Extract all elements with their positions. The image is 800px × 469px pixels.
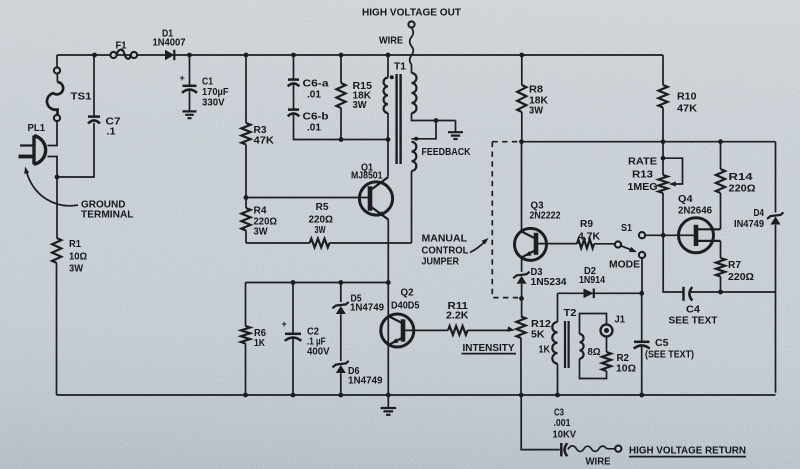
wire rail2 <box>522 141 776 143</box>
label 8 ohm <box>588 347 601 358</box>
svg-text:TS1: TS1 <box>71 92 92 103</box>
svg-text:R13: R13 <box>632 170 653 181</box>
svg-text:220Ω: 220Ω <box>309 215 334 226</box>
svg-text:IN4749: IN4749 <box>734 219 764 230</box>
svg-text:1N914: 1N914 <box>579 275 605 286</box>
switch S1 lower throw <box>639 252 645 258</box>
capacitor C6-b <box>288 110 388 140</box>
svg-text:2N2646: 2N2646 <box>678 206 712 217</box>
wire J1 to R2 <box>606 337 608 352</box>
node bottom rail T2 <box>555 393 560 398</box>
svg-text:2N2222: 2N2222 <box>530 211 561 222</box>
svg-text:R14: R14 <box>729 172 754 183</box>
label R3 <box>254 125 275 147</box>
transformer T2 secondary <box>580 314 607 379</box>
svg-text:.1: .1 <box>107 127 116 138</box>
svg-text:4.7K: 4.7K <box>578 232 601 243</box>
svg-text:3W: 3W <box>529 106 544 117</box>
zener diode D4 <box>767 212 783 224</box>
node R3 top junction <box>244 53 249 58</box>
label FEEDBACK <box>422 147 472 158</box>
svg-text:5K: 5K <box>531 330 545 341</box>
switch S1 upper throw <box>639 232 645 238</box>
svg-text:.01: .01 <box>307 90 321 101</box>
wire D2 rail <box>558 292 642 294</box>
label R15 <box>353 81 373 111</box>
label R5 <box>309 202 334 236</box>
svg-text:220Ω: 220Ω <box>729 184 756 195</box>
wire D3 to R12 <box>521 284 523 317</box>
svg-text:C6-b: C6-b <box>303 112 329 123</box>
label C6-a <box>303 79 330 101</box>
capacitor C5 <box>634 293 650 395</box>
fuse F1 <box>110 50 137 59</box>
node bottom rail C3 branch <box>519 393 524 398</box>
label D5 <box>350 294 384 314</box>
svg-text:HIGH VOLTAGE RETURN: HIGH VOLTAGE RETURN <box>629 446 746 457</box>
node R15 bottom junction <box>339 137 344 142</box>
svg-text:C4: C4 <box>686 305 700 316</box>
wire C7 bottom <box>57 123 94 177</box>
manual-control-jumper dashed line <box>492 142 519 298</box>
switch TS1 top terminal <box>54 67 60 73</box>
label T2 <box>564 308 577 319</box>
svg-text:3W: 3W <box>353 100 368 111</box>
svg-text:170µF: 170µF <box>202 87 229 98</box>
label R4 <box>254 206 278 238</box>
ground at T1 <box>448 132 463 139</box>
node jumper junction <box>519 296 524 301</box>
svg-text:MODE: MODE <box>609 260 640 271</box>
node Q1/Q2 junction <box>386 280 391 285</box>
svg-text:R2: R2 <box>617 353 630 364</box>
transformer T1 primary winding <box>384 55 388 177</box>
svg-text:2.2K: 2.2K <box>446 311 469 322</box>
wire PL1 to ground node <box>48 157 58 178</box>
node bottom rail C2 <box>291 393 296 398</box>
wire Q1 emitter <box>387 220 389 283</box>
transformer T2 core <box>565 321 569 368</box>
svg-text:10Ω: 10Ω <box>616 364 636 375</box>
svg-text:SEE TEXT: SEE TEXT <box>669 316 718 327</box>
node R7 bottom junction <box>718 290 723 295</box>
ground at bottom rail <box>381 395 397 415</box>
svg-text:CONTROL: CONTROL <box>422 246 469 257</box>
svg-text:1N4007: 1N4007 <box>153 38 186 49</box>
label T1 <box>394 62 406 73</box>
jack J1 <box>601 325 613 337</box>
capacitor C2 <box>282 283 302 396</box>
node C2 top junction <box>291 280 296 285</box>
svg-text:(SEE TEXT): (SEE TEXT) <box>645 350 694 361</box>
svg-text:R9: R9 <box>580 219 593 230</box>
label WIRE top <box>379 36 403 47</box>
transformer T1 secondary winding <box>412 73 456 121</box>
label R1 <box>69 239 87 275</box>
svg-text:10KV: 10KV <box>553 430 577 441</box>
thermal switch TS1 <box>47 74 63 115</box>
node C1 top junction <box>187 53 192 58</box>
label C7 <box>106 117 121 138</box>
node R13 loop junction <box>661 156 666 161</box>
switch S1 arm <box>621 246 637 252</box>
svg-text:1K: 1K <box>254 338 266 349</box>
zener diode D3 <box>513 272 529 284</box>
svg-text:3W: 3W <box>315 225 326 236</box>
wire Q3 collector <box>521 142 523 232</box>
label HIGH VOLTAGE OUT <box>362 7 462 19</box>
T1 primary phase dot <box>390 75 394 79</box>
label C6-b <box>303 112 329 134</box>
svg-text:Q4: Q4 <box>678 194 693 205</box>
label Q3 <box>530 201 561 222</box>
wire Q2 base to R11 <box>403 329 448 331</box>
node top-left corner <box>56 55 58 67</box>
label R2 <box>616 353 636 375</box>
label D2 <box>579 266 605 286</box>
svg-text:C1: C1 <box>202 77 213 88</box>
label HIGH VOLTAGE RETURN <box>629 446 746 457</box>
svg-text:R1: R1 <box>69 239 81 250</box>
svg-text:J1: J1 <box>615 315 626 326</box>
T1 feedback phase dot <box>414 137 418 141</box>
wire S1 lower throw down <box>641 258 643 293</box>
label MANUAL CONTROL JUMPER <box>422 234 469 268</box>
svg-text:Q2: Q2 <box>401 288 414 299</box>
resistor R14 <box>716 142 725 230</box>
wire C4 left <box>663 235 682 292</box>
svg-text:+: + <box>282 319 287 329</box>
label R10 <box>677 92 698 115</box>
node R8 top junction <box>519 53 524 58</box>
capacitor C4 <box>684 287 776 301</box>
svg-text:.001: .001 <box>554 418 571 429</box>
node bottom rail D6 <box>338 393 343 398</box>
label WIRE bottom <box>586 457 611 468</box>
label R11 <box>446 301 469 322</box>
transistor Q3 <box>515 228 547 260</box>
node T1 primary / C6 rail junction <box>386 137 391 142</box>
svg-text:RATE: RATE <box>628 157 657 168</box>
svg-text:T1: T1 <box>394 62 406 73</box>
node R8 bottom junction <box>519 139 524 144</box>
svg-text:47K: 47K <box>254 136 275 147</box>
svg-text:R4: R4 <box>254 206 267 217</box>
high-voltage-return terminal <box>615 446 621 452</box>
resistor R4 <box>241 198 250 244</box>
svg-text:C3: C3 <box>554 408 564 419</box>
svg-text:3W: 3W <box>69 264 84 275</box>
label R8 <box>529 85 549 117</box>
label C3 <box>553 408 577 441</box>
node R10 bottom junction <box>661 139 666 144</box>
svg-text:FEEDBACK: FEEDBACK <box>422 147 472 158</box>
label R6 <box>254 328 266 349</box>
label D3 <box>531 267 567 288</box>
svg-text:D40D5: D40D5 <box>391 301 420 312</box>
wire Q3 emitter <box>521 257 523 272</box>
wire C3 branch <box>521 395 560 450</box>
label R12 <box>531 319 551 341</box>
label TS1 <box>71 92 92 103</box>
wire D6 bottom <box>340 373 342 395</box>
resistor R6 <box>241 283 250 396</box>
capacitor C1 <box>180 55 198 111</box>
label R9 <box>578 219 601 243</box>
svg-text:R8: R8 <box>529 85 543 96</box>
node C7 top junction <box>92 53 97 58</box>
label C4 <box>669 305 718 327</box>
svg-text:8Ω: 8Ω <box>588 347 601 358</box>
transformer T2 primary <box>552 293 557 395</box>
svg-text:MJ8501: MJ8501 <box>351 171 383 182</box>
svg-text:R5: R5 <box>316 202 329 213</box>
switch TS1 bottom terminal <box>54 115 60 121</box>
node bottom rail Q2 <box>386 393 391 398</box>
svg-text:1K: 1K <box>539 345 551 356</box>
svg-text:HIGH VOLTAGE OUT: HIGH VOLTAGE OUT <box>362 7 462 19</box>
svg-text:TERMINAL: TERMINAL <box>81 210 134 221</box>
connector PL1 body <box>34 136 46 165</box>
svg-text:47K: 47K <box>677 104 698 115</box>
label Q1 <box>351 163 383 182</box>
svg-text:10Ω: 10Ω <box>69 252 87 263</box>
svg-text:F1: F1 <box>116 40 127 51</box>
svg-text:1N5234: 1N5234 <box>531 277 567 288</box>
svg-text:INTENSITY: INTENSITY <box>463 343 515 354</box>
transistor Q4 <box>679 218 721 253</box>
high-voltage-out terminal <box>408 21 414 27</box>
wire HV out squiggle <box>410 28 414 73</box>
label D4 <box>734 208 764 230</box>
svg-text:R3: R3 <box>254 125 267 136</box>
switch S1 pole <box>615 241 621 247</box>
resistor R2 <box>602 352 611 371</box>
label D1 <box>153 29 186 49</box>
svg-text:PL1: PL1 <box>28 123 46 134</box>
label Q4 <box>678 194 712 217</box>
wire lower rail <box>246 282 389 284</box>
label 1K <box>539 345 551 356</box>
node R3/R4 junction <box>244 195 249 200</box>
node Q4 emitter junction <box>661 233 666 238</box>
wire to T1 ground <box>455 121 457 132</box>
label D6 <box>348 366 383 387</box>
wire S1 upper throw to Q4 <box>645 234 678 236</box>
label Q2 <box>391 288 420 312</box>
wire D5 top <box>340 283 342 303</box>
label MODE <box>609 260 640 271</box>
node T1 primary top junction <box>386 53 391 58</box>
wire HV return squiggle <box>568 446 615 452</box>
label PL1 <box>28 123 46 134</box>
label C5 <box>645 338 694 361</box>
transformer T1 feedback winding <box>412 121 437 244</box>
resistor R1 <box>52 177 61 395</box>
svg-text:JUMPER: JUMPER <box>422 257 460 268</box>
wire top rail <box>57 54 663 56</box>
svg-text:3W: 3W <box>254 227 269 238</box>
label C1 <box>202 77 229 109</box>
transistor Q2 <box>381 314 414 347</box>
label J1 <box>615 315 626 326</box>
label S1 <box>621 223 632 234</box>
wire rail2 dashed start <box>492 141 521 143</box>
resistor R7 <box>716 241 725 292</box>
ground below C1 <box>183 111 197 118</box>
svg-text:T2: T2 <box>564 308 577 319</box>
transformer T1 core <box>397 74 401 164</box>
node PL1/C7/R1 junction <box>55 175 60 180</box>
label C2 <box>307 327 330 358</box>
svg-text:D4: D4 <box>754 208 765 219</box>
potentiometer R13 <box>658 142 667 236</box>
jumper pointer arrow <box>470 238 489 253</box>
svg-text:1N4749: 1N4749 <box>348 376 383 387</box>
svg-text:.01: .01 <box>307 123 321 134</box>
label RATE <box>628 157 657 168</box>
svg-text:WIRE: WIRE <box>586 457 611 468</box>
ground-terminal pointer arrow <box>24 167 78 206</box>
svg-text:S1: S1 <box>621 223 632 234</box>
svg-text:330V: 330V <box>202 98 225 109</box>
resistor R10 <box>658 55 667 142</box>
svg-text:220Ω: 220Ω <box>728 272 754 283</box>
svg-text:C6-a: C6-a <box>303 79 330 90</box>
R12 wiper arrow <box>507 326 515 331</box>
node C6 top junction <box>291 53 296 58</box>
node R14 top junction <box>718 139 723 144</box>
resistor R11 <box>448 326 511 335</box>
svg-text:WIRE: WIRE <box>379 36 403 47</box>
svg-text:400V: 400V <box>307 347 330 358</box>
svg-text:+: + <box>180 73 185 83</box>
node D5 top junction <box>338 280 343 285</box>
wire bottom rail <box>57 394 776 396</box>
wire Q1 base rail <box>246 197 368 199</box>
potentiometer R12 <box>516 317 525 396</box>
wire TS1 to PL1 <box>48 121 58 145</box>
label F1 <box>116 40 127 51</box>
wire D4 chain <box>775 142 777 393</box>
svg-text:R12: R12 <box>531 319 551 330</box>
svg-text:1MEG: 1MEG <box>628 182 658 193</box>
node R15 top junction <box>339 53 344 58</box>
capacitor C6-a <box>288 55 300 109</box>
transistor Q1 <box>359 177 392 220</box>
resistor R5 <box>246 239 412 248</box>
label R7 <box>728 260 754 283</box>
svg-text:MANUAL: MANUAL <box>422 234 468 245</box>
zener diode D6 <box>332 361 348 373</box>
connector PL1 ground prong <box>19 155 34 159</box>
svg-text:1N4749: 1N4749 <box>350 303 384 314</box>
resistor R8 <box>517 55 526 142</box>
label GROUND TERMINAL <box>81 200 134 221</box>
wire Q3 base to R9 <box>538 243 577 245</box>
node D2/C5 junction <box>639 291 644 296</box>
svg-text:R10: R10 <box>677 92 697 103</box>
label INTENSITY <box>462 343 517 354</box>
node bottom rail C5 <box>639 393 644 398</box>
capacitor C7 <box>88 55 100 124</box>
wire Q2 chord <box>387 283 389 396</box>
capacitor C3 <box>561 443 567 456</box>
resistor R3 <box>241 55 250 198</box>
label R13 <box>628 170 658 194</box>
wire D5-D6 <box>340 314 342 361</box>
zener diode D5 <box>332 302 348 314</box>
connector PL1 upper prong <box>20 144 33 146</box>
label R14 <box>729 172 756 195</box>
resistor R15 <box>336 55 345 140</box>
svg-text:C5: C5 <box>655 338 669 349</box>
R13 wiper loop <box>663 158 683 186</box>
node bottom rail R6 <box>243 393 248 398</box>
diode D1 <box>165 50 174 60</box>
node T1 secondary/feedback junction <box>434 118 439 123</box>
resistor R9 <box>577 239 615 248</box>
svg-text:R7: R7 <box>728 260 741 271</box>
diode D2 <box>584 289 594 299</box>
